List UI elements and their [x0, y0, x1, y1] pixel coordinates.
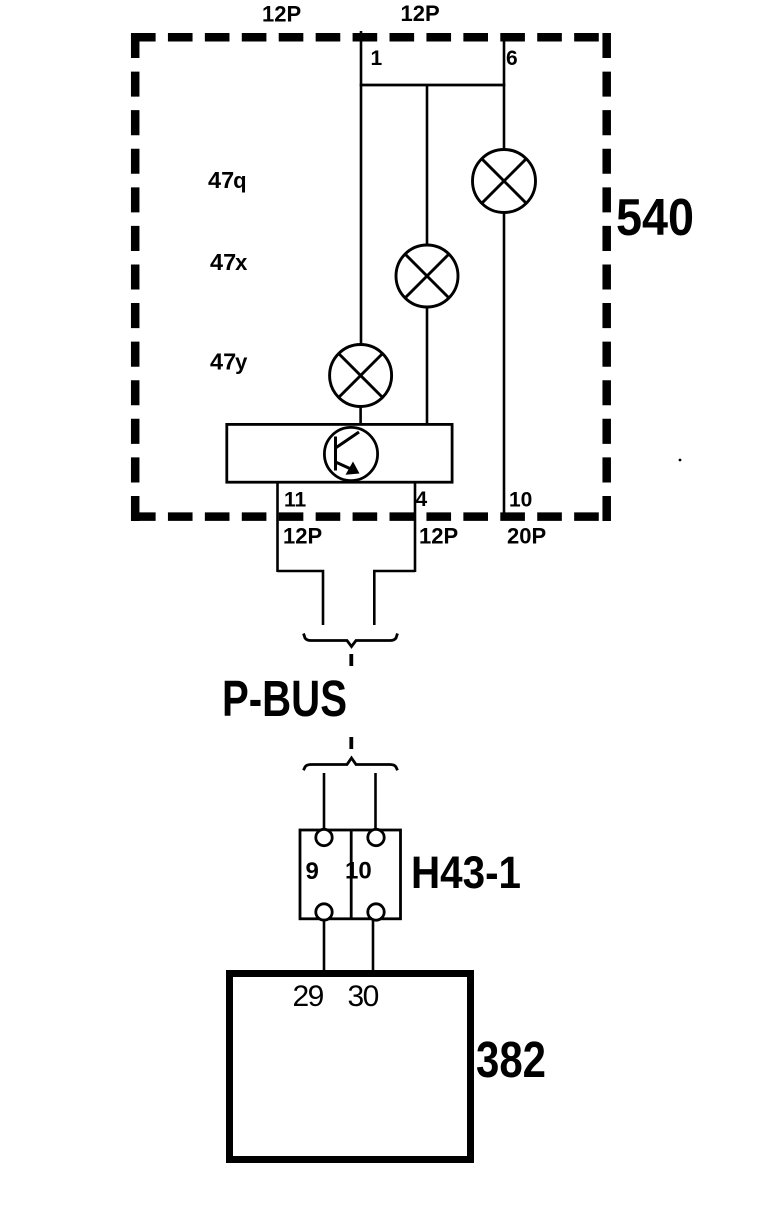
wire: brace to connector pin 10 — [374, 773, 377, 830]
wire: vertical to lamp 47q — [503, 85, 506, 150]
wire: pin 11 from driver box through border — [276, 483, 279, 572]
svg-text:9: 9 — [306, 858, 319, 885]
brace (underbrace) — [304, 634, 398, 647]
dashed box unit 540: left edge — [131, 33, 140, 521]
connector pin circle bottom-left — [316, 904, 332, 920]
wire: brace to connector pin 9 — [323, 773, 326, 830]
svg-text:H43-1: H43-1 — [411, 847, 521, 898]
svg-text:29: 29 — [293, 980, 324, 1013]
dashed box unit 540: bottom edge — [131, 512, 611, 521]
lamp 47x — [396, 245, 458, 307]
connector H43-1 body — [300, 830, 401, 919]
lamp 47y — [330, 345, 392, 407]
bus merge left step — [278, 571, 324, 625]
bus merge right step — [374, 571, 415, 625]
wire: connector to ECU pin 29 — [323, 919, 326, 972]
svg-text:47q: 47q — [208, 167, 247, 193]
svg-text:12P: 12P — [283, 524, 322, 549]
svg-text:12P: 12P — [419, 524, 458, 549]
transistor Q1 — [324, 427, 377, 480]
svg-text:47y: 47y — [210, 349, 248, 375]
connector pin circle bottom-right — [368, 904, 384, 920]
wire: pin1 vertical from top border to lamp 47y — [360, 31, 363, 345]
connector pin circle top-left — [316, 829, 332, 845]
svg-text:11: 11 — [284, 489, 307, 512]
wire: vertical branch to lamp 47x — [426, 85, 429, 246]
wire: pin6 vertical from top border to horizontal bus — [503, 36, 506, 85]
svg-text:10: 10 — [345, 858, 372, 885]
svg-text:1: 1 — [371, 47, 383, 70]
svg-text:4: 4 — [416, 488, 428, 511]
svg-text:540: 540 — [616, 189, 694, 247]
wire: pin 4 from driver box through border — [414, 483, 417, 572]
wire: lamp 47y to driver box — [359, 407, 362, 425]
P-BUS dashed link (lower dash) — [349, 737, 353, 749]
wire: lamp 47x to driver box — [426, 307, 429, 424]
svg-text:30: 30 — [348, 980, 379, 1013]
ECU box 382 — [230, 974, 471, 1160]
svg-text:47x: 47x — [210, 249, 248, 275]
svg-text:382: 382 — [476, 1031, 546, 1088]
svg-text:P-BUS: P-BUS — [222, 670, 347, 727]
svg-text:6: 6 — [506, 47, 518, 70]
brace (overbrace) — [304, 758, 398, 770]
wire: horizontal bus inside box — [360, 84, 506, 87]
wire: lamp 47q to pin 10 — [503, 213, 506, 518]
lamp 47q — [473, 150, 536, 213]
dashed box unit 540: right edge — [602, 33, 611, 521]
connector pin circle top-right — [368, 829, 384, 845]
wire: connector to ECU pin 30 — [372, 919, 375, 972]
svg-text:20P: 20P — [507, 524, 546, 549]
svg-text:12P: 12P — [401, 1, 440, 26]
P-BUS dashed link (upper dash) — [349, 654, 353, 666]
driver box — [227, 424, 452, 482]
svg-text:12P: 12P — [262, 2, 301, 27]
speck artifact — [679, 459, 682, 462]
svg-text:10: 10 — [509, 489, 532, 512]
dashed box unit 540: top edge — [131, 33, 611, 42]
